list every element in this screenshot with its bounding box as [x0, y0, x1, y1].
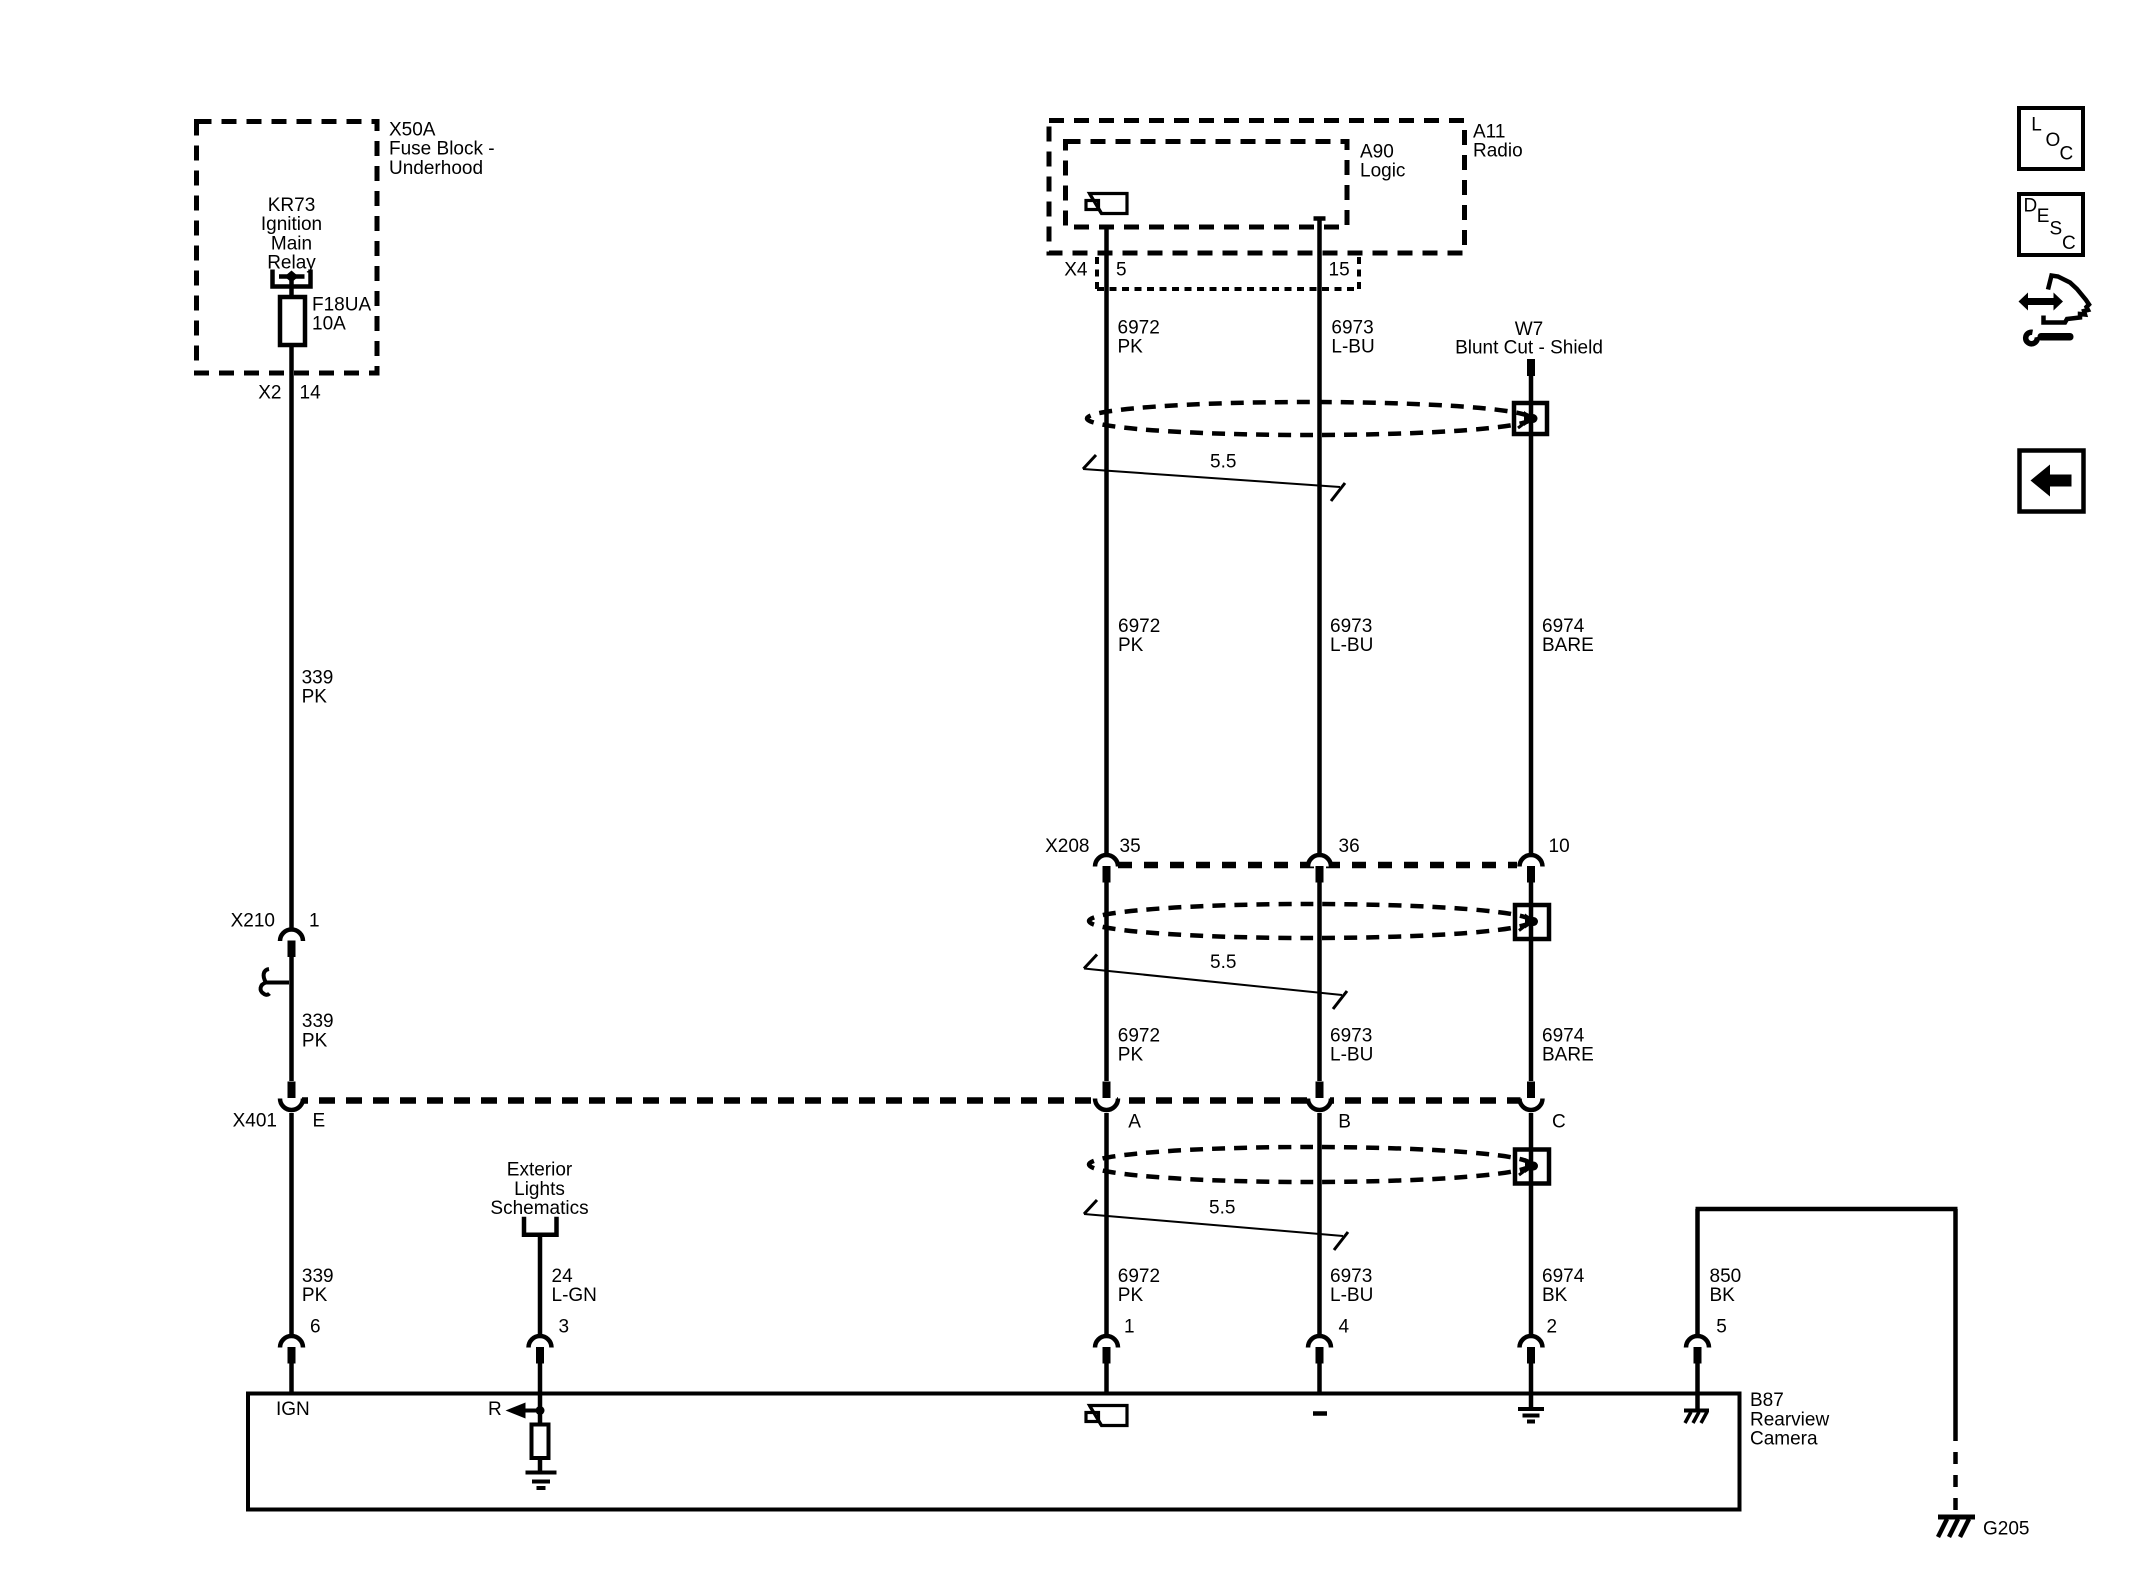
- svg-text:6974: 6974: [1542, 616, 1585, 637]
- connector pin 2 camera: [1520, 1336, 1543, 1394]
- label F18UA 10A: [312, 294, 371, 334]
- blunt cut bar W7: [1527, 359, 1535, 376]
- label wire 6974 BK: [1542, 1266, 1585, 1306]
- wire resistor to ground: [538, 1458, 543, 1471]
- svg-text:6972: 6972: [1118, 317, 1160, 338]
- connector X208 pin 36: [1308, 855, 1331, 883]
- svg-text:L-BU: L-BU: [1331, 337, 1374, 358]
- wire 6974 shield to X208: [1529, 376, 1534, 854]
- connector X2 pin 14 labels: [258, 382, 321, 403]
- connector X208 dashed line: [1118, 862, 1517, 869]
- svg-text:Underhood: Underhood: [389, 158, 483, 179]
- svg-text:14: 14: [300, 382, 322, 403]
- svg-text:6973: 6973: [1330, 1025, 1372, 1046]
- shield ellipse row1: [1087, 402, 1531, 435]
- wire 6972 radio to X208: [1104, 228, 1109, 854]
- svg-text:10: 10: [1549, 836, 1570, 857]
- svg-text:5.5: 5.5: [1209, 1197, 1235, 1218]
- connector X401 cup B: [1308, 1082, 1331, 1111]
- wire 24 bracket to camera: [538, 1235, 543, 1335]
- svg-text:2: 2: [1547, 1317, 1558, 1338]
- svg-text:339: 339: [302, 1011, 334, 1032]
- svg-text:L-BU: L-BU: [1330, 1285, 1373, 1306]
- svg-text:R: R: [488, 1399, 502, 1420]
- svg-text:Radio: Radio: [1473, 141, 1523, 162]
- svg-text:36: 36: [1339, 836, 1360, 857]
- wire 6972 X401 to camera: [1104, 1113, 1109, 1335]
- svg-text:PK: PK: [1118, 635, 1144, 656]
- junction dot pin3: [536, 1394, 545, 1425]
- connector pin 6 camera: [280, 1336, 303, 1394]
- label wire 6973 L-BU group4: [1330, 1266, 1373, 1306]
- svg-text:339: 339: [302, 667, 334, 688]
- svg-text:PK: PK: [302, 1285, 328, 1306]
- resistor in camera: [532, 1425, 549, 1459]
- terminal dash pin 15 in A90: [1314, 216, 1326, 221]
- wire relay to fuse: [289, 277, 294, 300]
- svg-text:10A: 10A: [312, 314, 346, 335]
- svg-text:X210: X210: [231, 910, 275, 931]
- svg-text:B87: B87: [1750, 1390, 1784, 1411]
- label Exterior Lights Schematics: [490, 1160, 588, 1220]
- chassis ground pin 5 in B87: [1684, 1394, 1709, 1424]
- svg-text:X50A: X50A: [389, 119, 436, 140]
- label wire 339 PK group2: [302, 1011, 334, 1051]
- logic A90 dashed box: [1066, 142, 1348, 228]
- camera icon in B87: [1086, 1406, 1127, 1426]
- connector X208 pin 10: [1520, 855, 1543, 883]
- label W7 Blunt Cut - Shield: [1455, 319, 1603, 359]
- connector X210 labels: [231, 910, 320, 931]
- label wire 6972 PK group3: [1118, 1025, 1160, 1065]
- svg-text:24: 24: [552, 1266, 574, 1287]
- label wire 6972 PK group2: [1118, 616, 1160, 656]
- connector X208 pin 35: [1095, 855, 1118, 883]
- svg-text:850: 850: [1710, 1266, 1742, 1287]
- svg-text:5: 5: [1716, 1317, 1727, 1338]
- svg-text:6973: 6973: [1330, 616, 1372, 637]
- wire 6973 X208 to X401: [1317, 883, 1322, 1082]
- wire 6973 X401 to camera: [1317, 1113, 1322, 1335]
- label wire 6972 PK group1: [1118, 317, 1160, 357]
- svg-text:Main: Main: [271, 233, 312, 254]
- label wire 6972 PK group4: [1118, 1266, 1160, 1306]
- svg-text:A: A: [1128, 1111, 1141, 1132]
- svg-text:X401: X401: [233, 1110, 277, 1131]
- icon LOC button: [2019, 108, 2083, 169]
- connector pin 3 camera: [529, 1336, 552, 1394]
- svg-text:Fuse Block -: Fuse Block -: [389, 139, 495, 160]
- svg-text:Exterior: Exterior: [507, 1160, 573, 1181]
- svg-text:6972: 6972: [1118, 1266, 1160, 1287]
- clip symbol at X210: [261, 969, 289, 995]
- svg-text:Logic: Logic: [1360, 161, 1405, 182]
- connector pin 1 camera: [1095, 1336, 1118, 1394]
- dimension line 5.5 row2: [1084, 952, 1347, 1009]
- label R with arrow: [488, 1399, 540, 1420]
- ground G205 chassis symbol: [1938, 1517, 1975, 1537]
- ground symbol under resistor: [526, 1473, 557, 1489]
- shield ellipse row3: [1089, 1147, 1531, 1182]
- svg-text:PK: PK: [1118, 1045, 1144, 1066]
- camera icon in A90: [1086, 194, 1127, 214]
- svg-text:6974: 6974: [1542, 1266, 1585, 1287]
- rearview camera B87 box: [248, 1394, 1740, 1510]
- terminal dash pin 4 in B87: [1313, 1411, 1327, 1416]
- svg-text:1: 1: [1124, 1317, 1135, 1338]
- svg-text:5.5: 5.5: [1210, 451, 1236, 472]
- svg-text:C: C: [1552, 1111, 1566, 1132]
- connector X401 dashed line: [292, 1097, 1532, 1104]
- label wire 6974 BARE group2: [1542, 616, 1594, 656]
- connector X208 labels: [1045, 836, 1570, 857]
- relay KR73 contact symbol: [273, 270, 311, 287]
- label wire 6974 BARE group3: [1542, 1025, 1594, 1065]
- ground symbol pin 2 in B87: [1518, 1394, 1544, 1422]
- label KR73 Ignition Main Relay: [261, 195, 322, 274]
- label A11 Radio: [1473, 121, 1523, 161]
- label wire 850 BK: [1710, 1266, 1742, 1306]
- svg-text:PK: PK: [1118, 1285, 1144, 1306]
- label wire 24 L-GN: [552, 1266, 597, 1306]
- connector X401 cup A: [1095, 1082, 1118, 1111]
- svg-text:6973: 6973: [1330, 1266, 1372, 1287]
- svg-text:339: 339: [302, 1266, 334, 1287]
- dimension line 5.5 row1: [1083, 451, 1345, 501]
- svg-text:L-BU: L-BU: [1330, 635, 1373, 656]
- label wire 339 PK group3: [302, 1266, 334, 1306]
- svg-text:Ignition: Ignition: [261, 214, 322, 235]
- label wire 6973 L-BU group1: [1331, 317, 1374, 357]
- svg-text:6974: 6974: [1542, 1025, 1585, 1046]
- svg-text:L: L: [2031, 114, 2042, 135]
- wire 6973 radio to X208: [1317, 221, 1322, 854]
- wire 339 X210 to X401: [289, 957, 294, 1081]
- svg-text:X208: X208: [1045, 836, 1089, 857]
- svg-text:15: 15: [1329, 259, 1350, 280]
- svg-text:PK: PK: [302, 1031, 328, 1052]
- svg-text:PK: PK: [1118, 337, 1144, 358]
- label G205: [1983, 1518, 2029, 1539]
- svg-text:IGN: IGN: [276, 1399, 310, 1420]
- label wire 339 PK group1: [302, 667, 334, 707]
- svg-text:PK: PK: [302, 687, 328, 708]
- svg-text:D: D: [2024, 196, 2038, 217]
- svg-text:BK: BK: [1710, 1285, 1736, 1306]
- connector X401 cup C: [1520, 1082, 1543, 1111]
- off-page bracket Exterior Lights: [524, 1217, 557, 1235]
- svg-text:E: E: [2037, 206, 2050, 227]
- dimension line 5.5 row3: [1084, 1197, 1348, 1250]
- shield box row1: [1514, 403, 1547, 434]
- svg-text:S: S: [2050, 219, 2063, 240]
- svg-text:5: 5: [1116, 259, 1127, 280]
- svg-text:35: 35: [1120, 836, 1141, 857]
- svg-text:BK: BK: [1542, 1285, 1568, 1306]
- svg-text:Schematics: Schematics: [490, 1198, 588, 1219]
- svg-text:5.5: 5.5: [1210, 952, 1236, 973]
- camera pin number labels: [310, 1317, 1727, 1338]
- svg-text:1: 1: [309, 910, 320, 931]
- svg-text:4: 4: [1339, 1317, 1350, 1338]
- connector X4 pin labels: [1064, 259, 1349, 280]
- svg-text:Rearview: Rearview: [1750, 1409, 1829, 1430]
- svg-text:A11: A11: [1473, 121, 1505, 142]
- wire 850 top horizontal: [1696, 1207, 1958, 1212]
- connector X401 labels: [233, 1110, 1566, 1132]
- radio A11 dashed box: [1049, 121, 1465, 254]
- shield box row2: [1515, 905, 1549, 939]
- svg-text:L-GN: L-GN: [552, 1285, 597, 1306]
- label B87 Rearview Camera: [1750, 1390, 1829, 1450]
- svg-text:B: B: [1338, 1111, 1351, 1132]
- wire 6974 X208 to X401: [1529, 883, 1534, 1082]
- svg-text:G205: G205: [1983, 1518, 2029, 1539]
- fuse F18UA 10A: [280, 297, 305, 345]
- svg-text:Camera: Camera: [1750, 1429, 1818, 1450]
- wire 339 X401 to camera: [289, 1113, 294, 1335]
- icon repair arrow and wrench: [2019, 276, 2090, 344]
- svg-text:E: E: [313, 1110, 326, 1131]
- label wire 6973 L-BU group2: [1330, 616, 1373, 656]
- svg-text:BARE: BARE: [1542, 1045, 1594, 1066]
- svg-text:6972: 6972: [1118, 1025, 1160, 1046]
- wire 850 camera pin5 up: [1695, 1209, 1700, 1335]
- icon DESC button: [2019, 194, 2083, 255]
- wire 850 right vertical: [1953, 1209, 1958, 1429]
- label wire 6973 L-BU group3: [1330, 1025, 1373, 1065]
- connector X210 pin 1: [280, 930, 303, 958]
- shield ellipse row2: [1089, 904, 1531, 938]
- icon back arrow button: [2020, 451, 2084, 512]
- connector pin 4 camera: [1308, 1336, 1331, 1394]
- svg-text:C: C: [2060, 144, 2074, 165]
- svg-text:C: C: [2062, 233, 2076, 254]
- wire fuse to X210: [289, 343, 294, 928]
- label IGN: [276, 1399, 310, 1420]
- fuse block X50A dashed box: [197, 122, 378, 374]
- svg-text:L-BU: L-BU: [1330, 1045, 1373, 1066]
- wire 6974 X401 to camera: [1529, 1113, 1534, 1335]
- svg-text:6972: 6972: [1118, 616, 1160, 637]
- svg-text:Blunt Cut - Shield: Blunt Cut - Shield: [1455, 338, 1603, 359]
- svg-text:X4: X4: [1064, 259, 1088, 280]
- svg-text:F18UA: F18UA: [312, 294, 371, 315]
- svg-text:Lights: Lights: [514, 1179, 565, 1200]
- wire 6972 X208 to X401: [1104, 883, 1109, 1082]
- svg-text:3: 3: [559, 1317, 570, 1338]
- svg-text:KR73: KR73: [268, 195, 316, 216]
- connector pin 5 camera: [1686, 1336, 1709, 1394]
- svg-text:6: 6: [310, 1317, 321, 1338]
- svg-text:O: O: [2046, 130, 2061, 151]
- wire 850 dashed to ground: [1953, 1429, 1958, 1515]
- svg-text:X2: X2: [258, 382, 281, 403]
- svg-text:6973: 6973: [1331, 317, 1373, 338]
- label A90 Logic: [1360, 141, 1405, 181]
- svg-text:BARE: BARE: [1542, 635, 1594, 656]
- label X50A Fuse Block - Underhood: [389, 119, 495, 179]
- svg-text:A90: A90: [1360, 141, 1394, 162]
- shield box row3: [1515, 1150, 1549, 1184]
- connector X4 dotted box: [1097, 257, 1359, 289]
- connector X401 cup E: [280, 1082, 303, 1111]
